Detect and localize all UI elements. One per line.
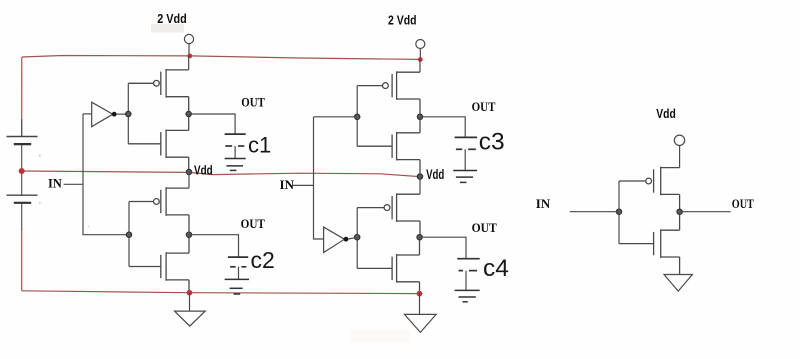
node red junction top rail block2 [418, 57, 423, 62]
capacitor c3 [455, 137, 478, 149]
svg-text:IN: IN [536, 196, 551, 211]
inverter U2 [324, 227, 355, 252]
transistor PMOS M3 [129, 187, 189, 235]
wire to ground symbol block1 [189, 293, 191, 311]
wire gate bus pair2 [128, 202, 130, 267]
svg-text:OUT: OUT [241, 216, 266, 231]
transistor NMOS M6 [357, 117, 420, 177]
wire bottom ground rail [22, 291, 420, 294]
svg-text:2 Vdd: 2 Vdd [157, 11, 187, 26]
node red junction bottom rail block2 [417, 291, 423, 297]
svg-text:Vdd: Vdd [426, 167, 444, 182]
transistor PMOS M5 [357, 71, 420, 117]
wire left battery feed vertical [21, 57, 23, 137]
svg-text:c1: c1 [248, 132, 271, 157]
svg-text:OUT: OUT [241, 95, 265, 110]
ground under c3 [453, 171, 477, 183]
svg-text:Vdd: Vdd [656, 106, 676, 121]
wire middle Vdd rail [22, 171, 420, 177]
wire circle to rail 2 [419, 49, 421, 60]
wire gate bus block3 [618, 181, 620, 244]
battery B2 plates [7, 194, 38, 196]
wire top rail 2Vdd [22, 56, 420, 60]
wire to ground symbol block2 [419, 294, 421, 315]
node output junction block3 [677, 209, 682, 214]
wire input bus block1 [83, 114, 129, 235]
ground GND1 triangle [175, 311, 206, 326]
node red junction top rail block1 [187, 54, 192, 59]
node gate junction block3 [616, 209, 621, 214]
node battery mid tap (red dot) [19, 168, 25, 174]
svg-text:IN: IN [48, 175, 62, 190]
node red junction bottom rail block1 [187, 290, 193, 296]
capacitor c4 [457, 259, 480, 271]
wire rail to PMOS1 drain [188, 56, 190, 70]
node Vdd supply circle 2 [416, 40, 425, 49]
wire IN1 stub [64, 183, 83, 185]
wire IN2 stub [293, 184, 314, 186]
svg-text:Vdd: Vdd [194, 163, 213, 178]
transistor PMOS M1 [128, 69, 188, 114]
wire rail to PMOS drain block2 [419, 59, 421, 72]
node gate junction pair2 [126, 232, 131, 237]
node inverter U1 output bubble (filled) [112, 112, 117, 117]
inverter U1 [83, 102, 126, 127]
svg-text:2 Vdd: 2 Vdd [388, 13, 417, 28]
transistor NMOS M10 [619, 212, 680, 275]
wire OUT5 stub [680, 211, 731, 213]
transistor PMOS M9 [619, 167, 680, 212]
node inverter U2 output bubble (filled) [344, 237, 349, 242]
node Vdd junction block1 [186, 169, 191, 174]
wire gate bus pair1 [127, 83, 129, 144]
ground GND3 triangle [664, 275, 692, 292]
wire circle to PMOS block3 [679, 146, 681, 168]
ground under c1 [225, 159, 246, 171]
wire gate bus pair4 [356, 208, 358, 269]
svg-text:IN: IN [280, 177, 295, 192]
node output junction pair4 [417, 235, 422, 240]
ground under c2 [225, 279, 249, 294]
svg-text:OUT: OUT [472, 220, 497, 235]
transistor PMOS M7 [357, 193, 420, 237]
node output junction pair1 [186, 111, 191, 116]
svg-text:c3: c3 [479, 128, 505, 155]
node Vdd supply circle 3 [674, 135, 684, 145]
node output junction pair2 [186, 232, 191, 237]
node output junction pair3 [417, 114, 422, 119]
capacitor c1 [225, 134, 246, 146]
wire IN3 stub [570, 211, 619, 213]
svg-text:OUT: OUT [472, 99, 496, 114]
wire gate bus pair3 [356, 86, 358, 147]
node gate junction pair4 [355, 235, 360, 240]
wire input bus block2 [314, 116, 358, 118]
node gate junction pair3 [355, 114, 360, 119]
wire Vdd to PMOS2 [188, 172, 190, 188]
svg-text:OUT: OUT [732, 196, 754, 211]
node Vdd supply circle 1 [184, 34, 193, 43]
ground under c4 [455, 290, 480, 301]
ground GND2 triangle [405, 314, 437, 332]
transistor NMOS M8 [357, 237, 419, 293]
wire Vdd to PMOS block2 lower [419, 177, 421, 195]
svg-text:c2: c2 [251, 247, 275, 273]
svg-text:c4: c4 [483, 255, 509, 282]
wire circle to rail [188, 44, 190, 56]
wire OUT1 to c1 [189, 114, 235, 134]
transistor NMOS M2 [128, 114, 188, 172]
wire OUT4 to c4 [420, 237, 466, 259]
battery B1 plates [7, 136, 38, 138]
wire OUT3 to c3 [420, 117, 465, 138]
wire OUT2 to c2 [189, 235, 239, 257]
transistor NMOS M4 [129, 235, 189, 293]
node gate junction pair1 [126, 111, 131, 116]
scan smudges (background tint) [151, 24, 184, 33]
node Vdd junction block2 [417, 174, 422, 179]
capacitor c2 [228, 257, 248, 267]
